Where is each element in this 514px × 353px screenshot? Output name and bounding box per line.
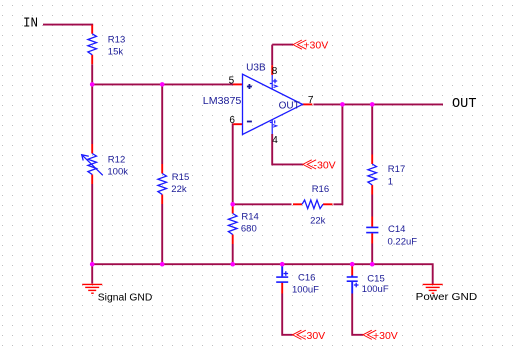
- svg-text:100k: 100k: [107, 167, 128, 178]
- svg-text:OUT: OUT: [279, 100, 300, 111]
- svg-text:+30V: +30V: [303, 39, 328, 51]
- svg-text:1: 1: [388, 177, 393, 188]
- svg-text:R14: R14: [241, 212, 258, 223]
- svg-text:6: 6: [229, 115, 235, 126]
- svg-text:R13: R13: [108, 34, 125, 45]
- svg-text:22k: 22k: [171, 184, 187, 195]
- svg-text:22k: 22k: [310, 215, 326, 226]
- svg-text:15k: 15k: [108, 47, 124, 58]
- svg-text:R15: R15: [172, 172, 189, 183]
- svg-text:IN: IN: [23, 17, 38, 32]
- svg-text:100uF: 100uF: [362, 284, 389, 295]
- svg-text:-30V: -30V: [314, 159, 336, 171]
- svg-text:8: 8: [272, 66, 278, 77]
- svg-text:680: 680: [241, 223, 257, 234]
- svg-text:R12: R12: [108, 154, 125, 165]
- svg-text:4: 4: [272, 135, 278, 146]
- svg-text:R17: R17: [388, 164, 405, 175]
- svg-text:U3B: U3B: [246, 62, 266, 73]
- svg-text:OUT: OUT: [452, 97, 477, 112]
- svg-text:7: 7: [308, 95, 314, 106]
- svg-text:+30V: +30V: [373, 330, 398, 342]
- svg-text:-30V: -30V: [303, 330, 325, 342]
- svg-text:C16: C16: [298, 273, 315, 284]
- svg-text:100uF: 100uF: [292, 284, 319, 295]
- svg-text:C14: C14: [388, 224, 405, 235]
- svg-text:5: 5: [229, 76, 235, 87]
- svg-text:LM3875: LM3875: [203, 96, 242, 107]
- svg-text:0.22uF: 0.22uF: [388, 236, 418, 247]
- svg-text:C15: C15: [367, 273, 384, 284]
- svg-text:Signal GND: Signal GND: [98, 292, 153, 303]
- svg-text:R16: R16: [312, 184, 329, 195]
- svg-text:Power GND: Power GND: [416, 292, 478, 303]
